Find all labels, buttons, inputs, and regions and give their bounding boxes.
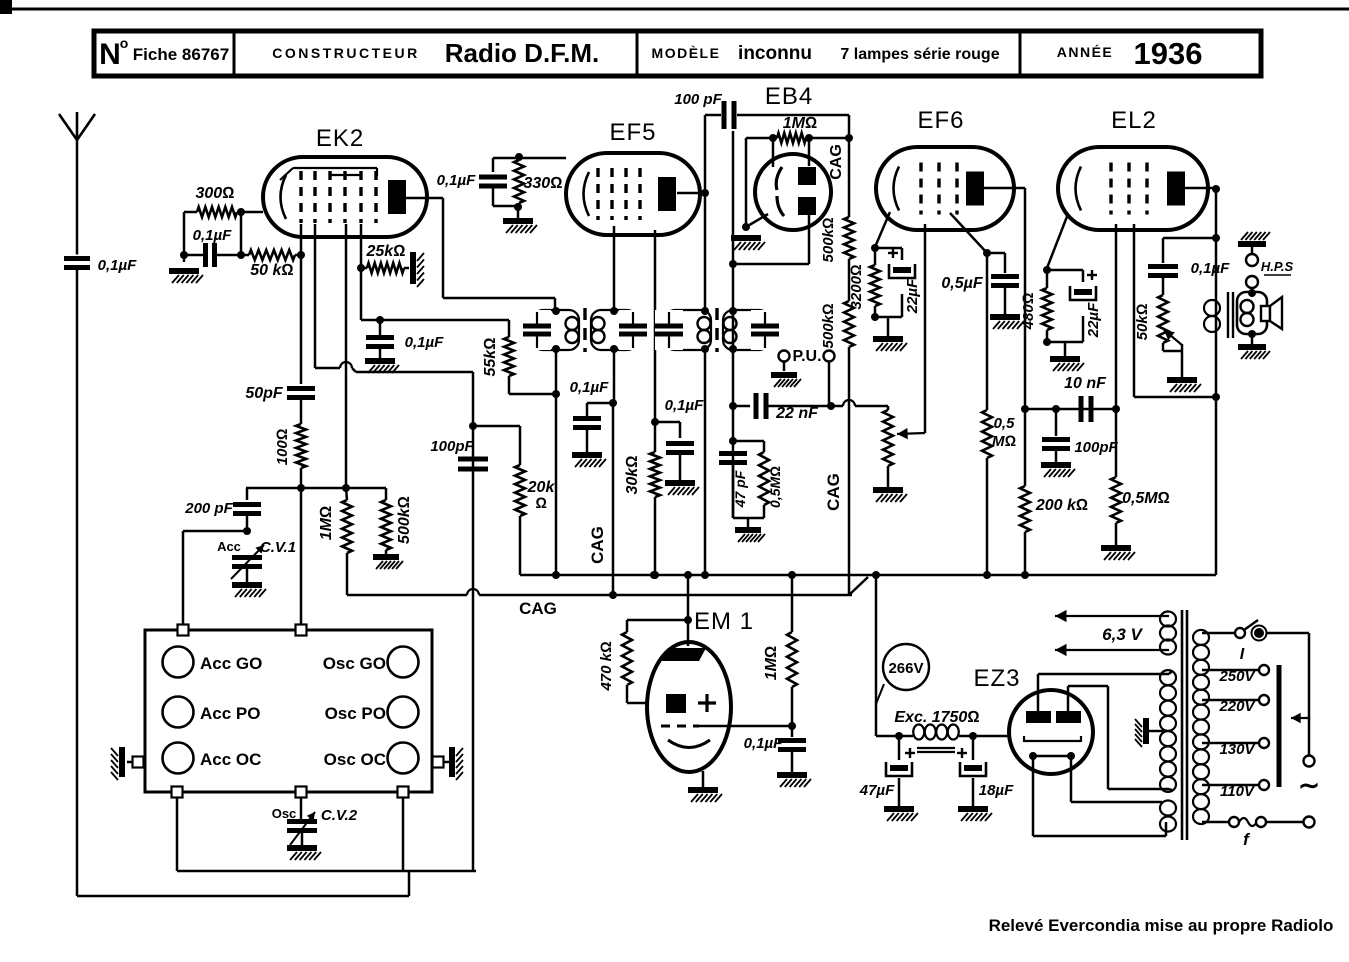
svg-text:Osc OC: Osc OC xyxy=(324,750,386,769)
svg-text:0,1µF: 0,1µF xyxy=(570,379,609,396)
tube EF6 xyxy=(876,147,1014,230)
node 100pF osc xyxy=(469,422,477,430)
wire EZ3 cath1 xyxy=(1032,756,1035,836)
svg-text:500kΩ: 500kΩ xyxy=(396,496,413,544)
terminal box bot2 xyxy=(296,787,307,798)
ground EK2 screen xyxy=(365,358,395,364)
speaker icon xyxy=(1261,306,1270,321)
IFT1 nodes xyxy=(552,307,560,315)
speaker frame xyxy=(1237,292,1267,334)
wire osc terminal xyxy=(300,488,303,624)
wire anode up xyxy=(704,115,707,193)
IFT1 core xyxy=(583,308,586,352)
wire osc cv2 xyxy=(300,797,303,819)
svg-text:0,5: 0,5 xyxy=(994,415,1016,432)
svg-text:Osc: Osc xyxy=(272,806,297,821)
IFT1 primary unit xyxy=(533,310,579,350)
svg-text:50kΩ: 50kΩ xyxy=(1134,303,1151,340)
ground 18uF xyxy=(958,806,988,812)
svg-text:1MΩ: 1MΩ xyxy=(763,646,780,681)
node EF6 cath xyxy=(871,244,879,252)
EK2 internal shield xyxy=(280,168,293,180)
chassis box left xyxy=(119,747,125,777)
terminal box top1 xyxy=(178,625,189,636)
svg-text:330Ω: 330Ω xyxy=(524,175,563,192)
ground 0.1uF det xyxy=(572,452,602,458)
svg-text:50 kΩ: 50 kΩ xyxy=(250,262,293,279)
wire CAG v1 xyxy=(612,403,615,595)
capacitor 0.5uF xyxy=(987,252,1005,255)
svg-text:Acc PO: Acc PO xyxy=(200,704,260,723)
svg-text:inconnu: inconnu xyxy=(738,43,812,64)
wire antenna lower xyxy=(76,268,79,897)
ground 500k osc xyxy=(373,554,399,560)
wire bus corner right xyxy=(1215,574,1218,577)
resistor 300ohm xyxy=(197,207,237,217)
label 266V xyxy=(883,644,929,690)
ground C.V.1 xyxy=(232,582,262,588)
tube EK2 xyxy=(263,157,427,237)
capacitor 0.1uF antenna xyxy=(64,256,90,261)
tap fuse xyxy=(1202,821,1229,824)
svg-text:200 kΩ: 200 kΩ xyxy=(1035,497,1088,514)
node EL2 cath xyxy=(1043,266,1051,274)
tone line xyxy=(1163,237,1216,240)
wire to EZ3 xyxy=(973,735,1009,738)
svg-text:110V: 110V xyxy=(1220,783,1256,800)
wire det chain xyxy=(732,349,735,518)
wire ift2 sec top xyxy=(732,131,735,309)
tone pot arrow xyxy=(1164,330,1182,345)
wire det gnd xyxy=(733,517,764,520)
top scan line xyxy=(0,8,1349,11)
antenna xyxy=(59,114,77,140)
svg-text:Osc GO: Osc GO xyxy=(323,654,386,673)
wire EF5 anode xyxy=(677,192,705,195)
svg-text:C.V.2: C.V.2 xyxy=(321,807,358,824)
svg-text:200 pF: 200 pF xyxy=(184,500,233,517)
wire cv2 gnd xyxy=(301,831,304,846)
coil Acc GO xyxy=(163,647,194,678)
wire 1M left xyxy=(746,137,777,140)
coil Osc PO xyxy=(388,697,419,728)
wire EK2 pin2 osc anode xyxy=(314,224,317,368)
electrolytic 22uF EL2 xyxy=(1070,286,1096,300)
HT center tap xyxy=(1143,718,1149,744)
svg-text:6,3 V: 6,3 V xyxy=(1102,625,1143,644)
tap 130V xyxy=(1202,742,1259,745)
wire EF5 screen pin xyxy=(654,230,657,422)
ground det xyxy=(735,527,761,533)
cap 22uF EL2 wires xyxy=(1047,269,1083,272)
svg-text:Exc. 1750Ω: Exc. 1750Ω xyxy=(894,709,979,726)
capacitor 0.1uF tone xyxy=(1162,238,1165,263)
resistor 1Mohm EB4 xyxy=(777,133,806,143)
svg-text:470 kΩ: 470 kΩ xyxy=(598,641,615,692)
capacitor 0.1uF EF5 screen xyxy=(655,421,680,424)
capacitor 200pF xyxy=(246,488,249,500)
ground speaker xyxy=(1238,344,1266,350)
svg-text:o: o xyxy=(120,35,129,51)
terminal PU right xyxy=(824,351,835,362)
variable capacitor C.V.1 xyxy=(232,555,262,560)
tone pot 50k xyxy=(1158,295,1168,343)
ground EL2 cathode xyxy=(1050,356,1080,362)
svg-text:I: I xyxy=(1240,646,1245,663)
svg-text:3200Ω: 3200Ω xyxy=(848,264,865,309)
wire EF5 g1 pin xyxy=(613,226,616,309)
IFT2 secondary unit xyxy=(723,310,769,350)
svg-text:1936: 1936 xyxy=(1134,36,1203,71)
wire EL2 anode xyxy=(1184,187,1216,190)
wire EM1 top xyxy=(687,575,690,620)
svg-text:250V: 250V xyxy=(1218,668,1256,685)
wire diode2 down xyxy=(808,215,811,264)
speaker top node xyxy=(1248,289,1256,297)
wire 100pF osc node xyxy=(472,372,475,871)
resistor 0.5M EL2 xyxy=(1115,409,1118,477)
wire screen line xyxy=(361,319,509,322)
resistor 30k xyxy=(650,452,660,497)
wire EF6 screen down xyxy=(986,253,989,410)
wire cv1 ground xyxy=(246,567,249,583)
switch I xyxy=(1235,628,1245,638)
wire wiper down xyxy=(1308,712,1311,755)
ground HPS top xyxy=(1238,241,1266,247)
svg-text:∼: ∼ xyxy=(1298,770,1320,800)
fuse xyxy=(1229,817,1239,827)
svg-text:Ω: Ω xyxy=(535,495,547,512)
header frame xyxy=(94,31,1261,76)
ground 0.1uF EM1 xyxy=(777,772,807,778)
tube EL2 xyxy=(1058,147,1208,230)
resistor 330ohm xyxy=(514,160,524,203)
svg-text:EF5: EF5 xyxy=(609,119,656,146)
choke core lines xyxy=(917,747,955,749)
tap 220V xyxy=(1202,699,1259,702)
svg-text:100pF: 100pF xyxy=(430,438,474,455)
svg-text:300Ω: 300Ω xyxy=(196,185,235,202)
svg-text:Relevé Evercondia mise au pro: Relevé Evercondia mise au propre Radiolo xyxy=(989,916,1334,935)
node cap left xyxy=(180,251,188,259)
capacitor 0.1uF EK2 grid xyxy=(203,243,208,267)
ground PU xyxy=(771,372,797,378)
svg-text:47 pF: 47 pF xyxy=(732,470,748,508)
wire ift1 sec bottom xyxy=(613,349,616,403)
variable capacitor C.V.2 xyxy=(287,819,317,824)
svg-text:500kΩ: 500kΩ xyxy=(820,217,837,262)
svg-text:EM 1: EM 1 xyxy=(694,608,754,635)
wire EB4 cathode ground xyxy=(745,138,748,227)
ground 47uF xyxy=(884,806,914,812)
ground 0.5uF xyxy=(990,314,1020,320)
resistor 100ohm xyxy=(296,424,306,468)
wire anode through xyxy=(1215,336,1218,575)
wire 100ohm-node xyxy=(300,468,303,488)
svg-text:47µF: 47µF xyxy=(859,782,895,799)
coil Acc OC xyxy=(163,743,194,774)
resistor 25k xyxy=(367,263,404,273)
mains winding xyxy=(1193,630,1209,645)
resistor 1M osc xyxy=(342,500,352,553)
terminal box right xyxy=(433,757,444,768)
svg-text:0,1µF: 0,1µF xyxy=(98,257,137,274)
wire 300ohm right xyxy=(237,211,263,214)
capacitor 47pF xyxy=(719,451,747,456)
pot wiper wire xyxy=(924,224,927,433)
svg-text:P.U.: P.U. xyxy=(792,348,821,365)
wire bottom bus xyxy=(177,870,476,873)
wire ift1 prim bottom xyxy=(555,349,558,575)
heater winding xyxy=(1160,612,1176,627)
resistor 1M EM1 xyxy=(791,575,794,632)
wire EZ3 anode1 xyxy=(1037,674,1040,711)
wire EL2 cathode diag xyxy=(1047,214,1068,268)
svg-text:EL2: EL2 xyxy=(1111,107,1157,134)
wire CAG v3 xyxy=(848,406,851,595)
wire EK2 pin g2 xyxy=(360,224,363,320)
wire 50pF-100ohm xyxy=(300,398,303,425)
wire 1M right xyxy=(806,137,849,140)
wire fuse right xyxy=(1266,821,1304,824)
terminal HPS upper xyxy=(1246,254,1258,266)
ground 330ohm xyxy=(503,218,533,224)
bus CAG y595 xyxy=(347,594,467,597)
wire switch right xyxy=(1266,632,1309,635)
ground pot xyxy=(873,487,903,493)
svg-text:CONSTRUCTEUR: CONSTRUCTEUR xyxy=(272,45,419,61)
tube EZ3 xyxy=(1009,690,1093,774)
speaker bottom node xyxy=(1248,330,1256,338)
svg-text:25kΩ: 25kΩ xyxy=(366,243,406,260)
resistor 500k upper xyxy=(844,217,854,259)
resistor 500k lower xyxy=(844,301,854,347)
resistor 0.5M det xyxy=(733,440,764,443)
wire EK2 anode xyxy=(406,197,443,200)
capacitor 10nF xyxy=(1079,396,1084,422)
svg-text:0,1µF: 0,1µF xyxy=(744,735,783,752)
wire EM1 gnd xyxy=(702,771,705,787)
capacitor 22nF xyxy=(733,405,750,408)
wire HPS gnd xyxy=(1251,247,1254,254)
volume pot 50k xyxy=(831,405,843,408)
svg-text:Acc: Acc xyxy=(217,539,241,554)
wire HT down xyxy=(875,575,878,736)
IFT2 core xyxy=(715,308,718,352)
ground 0.1uF EF5 screen xyxy=(665,480,695,486)
terminal box bot1 xyxy=(172,787,183,798)
selector wiper xyxy=(1291,717,1309,719)
svg-text:30kΩ: 30kΩ xyxy=(624,456,641,495)
wire CAG v2 xyxy=(848,138,851,217)
coil Acc PO xyxy=(163,697,194,728)
capacitor 0.1uF det xyxy=(587,402,613,405)
capacitor 18uF xyxy=(972,736,975,760)
wire cathode line xyxy=(493,157,566,160)
svg-text:55kΩ: 55kΩ xyxy=(482,338,499,377)
wire bot3 down xyxy=(402,797,405,871)
svg-text:100pF: 100pF xyxy=(1074,439,1118,456)
svg-text:480Ω: 480Ω xyxy=(1020,292,1037,330)
terminal box left xyxy=(133,757,144,768)
OPT core xyxy=(1227,292,1229,338)
wire 55k bottom xyxy=(508,376,511,394)
wire 480 gnd xyxy=(1064,342,1067,356)
svg-text:266V: 266V xyxy=(888,660,923,677)
wire EF6 cathode xyxy=(875,212,890,247)
bus dots xyxy=(650,571,658,579)
svg-text:20k: 20k xyxy=(527,479,556,496)
wire antenna return xyxy=(77,895,409,898)
wire ift2 prim bottom xyxy=(704,349,707,575)
wire 300ohm left xyxy=(184,211,197,214)
svg-text:10 nF: 10 nF xyxy=(1064,375,1107,392)
wire antenna down xyxy=(76,140,79,255)
wire EK2 pin g1 xyxy=(300,224,303,384)
wire EZ3 cath2 xyxy=(1070,756,1073,802)
terminal PU left xyxy=(779,351,790,362)
capacitor 50pF xyxy=(287,386,315,391)
svg-text:7 lampes série rouge: 7 lampes série rouge xyxy=(840,46,999,63)
svg-text:220V: 220V xyxy=(1218,698,1256,715)
coil box xyxy=(145,630,432,792)
wire 20k top xyxy=(473,425,520,428)
chassis 25k xyxy=(410,252,416,284)
svg-text:EF6: EF6 xyxy=(917,107,964,134)
svg-text:C.V.1: C.V.1 xyxy=(260,539,296,556)
svg-text:CAG: CAG xyxy=(828,144,845,180)
capacitor 47uF xyxy=(898,736,901,760)
wire EL2 screen xyxy=(1133,224,1136,397)
svg-text:0,1µF: 0,1µF xyxy=(437,172,476,189)
wire bot1 down xyxy=(176,797,179,871)
resistor 200k xyxy=(1020,486,1030,532)
selector bar xyxy=(1277,665,1282,787)
svg-text:22µF: 22µF xyxy=(1085,302,1102,338)
capacitor 0.1uF EF5 cathode xyxy=(492,158,495,172)
svg-text:EB4: EB4 xyxy=(765,83,813,110)
tap 250V xyxy=(1202,669,1259,672)
ground 100pF af xyxy=(1041,462,1071,468)
svg-text:1MΩ: 1MΩ xyxy=(783,115,818,132)
IFT2 primary unit xyxy=(665,310,711,350)
svg-text:0,5MΩ: 0,5MΩ xyxy=(767,466,783,508)
svg-text:0,1µF: 0,1µF xyxy=(193,227,232,244)
svg-text:0,5MΩ: 0,5MΩ xyxy=(1122,490,1170,507)
svg-text:CAG: CAG xyxy=(519,599,557,618)
ground EB4 xyxy=(731,235,761,241)
wire EL2 g1 xyxy=(1115,224,1118,409)
HT winding xyxy=(1160,670,1176,685)
svg-text:CAG: CAG xyxy=(588,526,607,564)
resistor 480ohm xyxy=(1046,270,1049,288)
wire EZ3 anode2 xyxy=(1067,686,1070,711)
wire EM1 grid out xyxy=(699,725,792,728)
svg-text:Osc PO: Osc PO xyxy=(325,704,386,723)
tap 110V xyxy=(1202,784,1259,787)
svg-text:1MΩ: 1MΩ xyxy=(318,506,335,541)
svg-text:0,1µF: 0,1µF xyxy=(665,397,704,414)
svg-text:100Ω: 100Ω xyxy=(274,428,291,465)
cap 22uF EF6 wire xyxy=(875,247,902,250)
resistor 50k EK2 xyxy=(249,250,295,260)
ground tone xyxy=(1167,377,1197,383)
wire CAG jog xyxy=(849,577,868,595)
resistor 20k xyxy=(515,465,525,516)
node grid line xyxy=(246,487,386,490)
wire acc terminal xyxy=(183,530,247,533)
svg-text:0,1µF: 0,1µF xyxy=(1191,260,1230,277)
tap switch wire xyxy=(1202,632,1236,635)
svg-text:0,5µF: 0,5µF xyxy=(941,275,983,292)
wire EF6 screen xyxy=(950,213,987,253)
chassis box right xyxy=(449,747,455,777)
svg-text:Radio D.F.M.: Radio D.F.M. xyxy=(445,38,600,68)
terminal HPS lower xyxy=(1246,276,1258,288)
terminal box bot3 xyxy=(398,787,409,798)
terminal mains2 xyxy=(1304,817,1315,828)
svg-text:0,1µF: 0,1µF xyxy=(405,334,444,351)
rect fil winding xyxy=(1160,801,1176,816)
svg-text:MΩ: MΩ xyxy=(992,433,1016,450)
terminal mains1 xyxy=(1304,756,1315,767)
OPT primary xyxy=(1204,300,1220,316)
electrolytic 22uF EF6 xyxy=(889,264,915,278)
wire EK2 pin g3 osc grid xyxy=(345,224,348,487)
resistor 55k xyxy=(504,337,514,376)
svg-text:Acc GO: Acc GO xyxy=(200,654,262,673)
resistor 500k osc xyxy=(385,488,388,500)
svg-text:EK2: EK2 xyxy=(316,125,364,152)
node g1 wire xyxy=(240,212,243,255)
svg-text:100 pF: 100 pF xyxy=(674,91,722,108)
ground 0.5M EL2 xyxy=(1101,545,1131,551)
heater arrows xyxy=(1055,615,1169,617)
ground EF6 cathode xyxy=(873,336,903,342)
svg-text:22µF: 22µF xyxy=(904,278,921,314)
coil Osc OC xyxy=(388,743,419,774)
resistor 3200ohm xyxy=(874,248,877,265)
svg-text:50pF: 50pF xyxy=(245,385,284,402)
capacitor 100pF af xyxy=(1055,409,1058,436)
bus 10nF xyxy=(1025,408,1116,411)
terminal box top2 xyxy=(296,625,307,636)
IFT1 secondary unit xyxy=(591,310,637,350)
svg-text:130V: 130V xyxy=(1219,741,1256,758)
tube EB4 xyxy=(755,154,831,230)
wire 500k bottom xyxy=(848,347,851,406)
wire 20k bottom xyxy=(519,516,522,575)
wire 22uF gnd xyxy=(887,317,890,336)
wire anode down xyxy=(1215,188,1218,296)
node 330 bottom xyxy=(514,203,522,211)
tube EM1 xyxy=(647,642,731,772)
resistor 0.5M EF6 xyxy=(982,410,992,458)
wire EF6 anode xyxy=(984,187,1025,190)
svg-text:Acc OC: Acc OC xyxy=(200,750,261,769)
wire between 500k xyxy=(848,259,851,301)
resistor 470k xyxy=(627,619,688,622)
coil Osc GO xyxy=(388,647,419,678)
svg-text:22 nF: 22 nF xyxy=(775,405,819,422)
capacitor 100pF top xyxy=(722,101,727,129)
svg-text:500kΩ: 500kΩ xyxy=(820,303,837,348)
ground EM1 xyxy=(688,787,718,793)
svg-text:CAG: CAG xyxy=(824,473,843,511)
wire det out xyxy=(732,311,735,349)
transformer core xyxy=(1181,610,1184,840)
ground C.V.2 xyxy=(287,845,317,851)
